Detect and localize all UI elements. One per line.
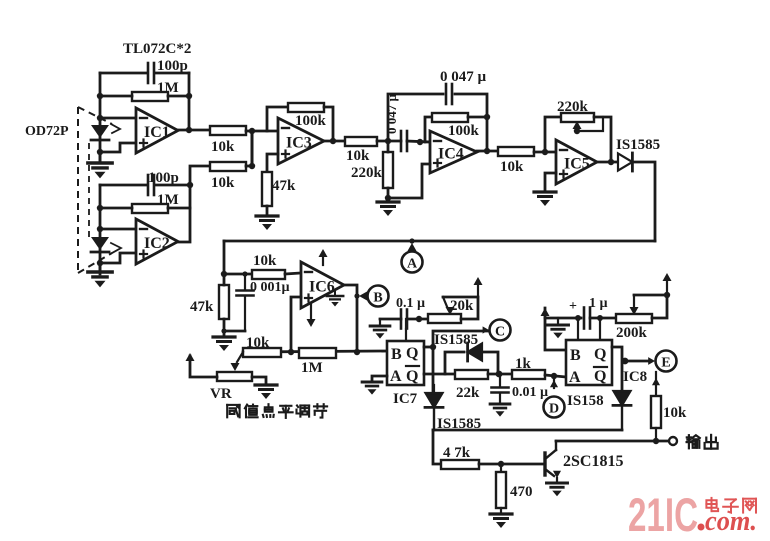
svg-text:10k: 10k <box>211 139 235 155</box>
svg-text:IC3: IC3 <box>286 135 312 152</box>
node IC1 noninv tap <box>97 149 103 155</box>
transistor 2SC1815 <box>545 441 561 483</box>
wire IC4 fb left <box>425 117 432 142</box>
wire 47k leads <box>223 274 226 331</box>
wire 10k to IC5 <box>534 151 556 154</box>
resistor 10k (IC6 in) <box>252 253 285 279</box>
svg-text:IS1585: IS1585 <box>434 332 478 348</box>
power arrow 20k <box>474 277 483 297</box>
wire 10k to hp node <box>377 140 401 143</box>
wire IC5 fb left <box>545 117 561 152</box>
resistor 1M (VR row) <box>299 348 336 376</box>
watermark dot <box>698 524 705 531</box>
ground under 47k IC3 <box>256 206 278 230</box>
label IS1585 lower <box>437 416 481 432</box>
neg arrow IC6 <box>307 303 316 327</box>
node 200k top <box>664 292 670 298</box>
wire 1u row <box>545 317 581 320</box>
wire cap to IC4 <box>407 141 430 142</box>
wire IC3 noninv <box>267 154 278 172</box>
label IS158 <box>567 393 604 409</box>
ground under D2 <box>88 263 112 287</box>
svg-text:A: A <box>569 369 581 386</box>
diode 1S1585 (IC5 out) <box>618 153 632 171</box>
ground 470 <box>490 508 512 528</box>
wire bus 10k-1M row <box>243 351 387 352</box>
wire to IC6 10k <box>224 273 252 276</box>
wire IC1 inv input <box>100 117 136 120</box>
svg-text:220k: 220k <box>557 99 589 115</box>
node IC1 1M right <box>186 93 192 99</box>
label output <box>687 435 718 449</box>
resistor 470 <box>496 464 533 508</box>
svg-text:IC4: IC4 <box>438 146 464 163</box>
ground 0.1u <box>370 319 390 339</box>
node A <box>402 252 423 273</box>
node C <box>483 320 511 341</box>
svg-text:IC7: IC7 <box>393 391 418 407</box>
wire 20k top loop <box>443 297 478 319</box>
wire 220k bottom <box>387 188 390 198</box>
wire IC2 feedback top <box>100 184 190 187</box>
svg-text:IC2: IC2 <box>144 235 170 252</box>
wire IC7 A gnd <box>372 376 387 382</box>
wire IC1 feedback top <box>100 72 189 75</box>
svg-text:IC6: IC6 <box>309 279 335 296</box>
svg-text:IS158: IS158 <box>567 393 604 409</box>
label 0 047u top <box>440 69 487 85</box>
svg-text:10k: 10k <box>346 148 370 164</box>
node 0.1u 20k <box>416 316 422 322</box>
svg-text:B: B <box>373 291 382 306</box>
resistor 220k (IC5 fb) <box>557 99 594 122</box>
svg-text:100p: 100p <box>148 170 179 186</box>
svg-text:A: A <box>390 368 402 385</box>
ground under D1 <box>88 152 112 178</box>
ground VR <box>255 385 277 399</box>
label IC7 <box>393 391 418 407</box>
svg-text:10k: 10k <box>500 159 524 175</box>
wire IC6 out <box>344 285 357 352</box>
node IC4 out <box>484 148 490 154</box>
ground 0.01u <box>490 404 510 417</box>
node IC1 1M left <box>97 93 103 99</box>
wiper 220k <box>573 117 604 134</box>
capacitor 0.047u series <box>401 131 407 151</box>
node 1u left <box>575 315 581 321</box>
svg-text:20k: 20k <box>450 298 474 314</box>
node IC2 top rail junction <box>187 182 193 188</box>
svg-text:100k: 100k <box>448 123 480 139</box>
svg-text:0.01 µ: 0.01 µ <box>512 385 548 400</box>
wire A bus to 47k <box>223 241 226 274</box>
wire 1u to 200k <box>590 317 617 320</box>
resistor 10k (VR row) <box>243 335 281 357</box>
svg-text:IC8: IC8 <box>623 369 647 385</box>
capacitor 1u <box>569 296 608 329</box>
arrow node D <box>550 376 558 388</box>
diode 1S1585 lower <box>425 385 443 430</box>
power arrow IC8 B <box>541 308 567 350</box>
wire 10k to output <box>655 428 657 441</box>
resistor 10k (E) <box>651 372 687 428</box>
op-amp IC1 <box>136 108 178 153</box>
svg-text:470: 470 <box>510 484 533 500</box>
wire cap leads <box>242 271 247 331</box>
wire 0.01u leads <box>499 374 501 404</box>
svg-text:47k: 47k <box>272 178 296 194</box>
node VR row b <box>354 349 360 355</box>
node 22k 1k <box>496 371 503 378</box>
ground emitter <box>547 483 568 496</box>
wire VR right <box>252 377 266 385</box>
svg-text:IC5: IC5 <box>564 156 590 173</box>
svg-text:1M: 1M <box>157 192 179 208</box>
svg-text:10k: 10k <box>663 405 687 421</box>
wire 200k loop <box>634 295 667 318</box>
wire IC7 Qbar out <box>424 373 455 376</box>
wire 10k2 to sum node <box>246 165 252 168</box>
resistor 47k (IC6) <box>190 285 229 319</box>
wire down to IC7 top <box>405 319 407 341</box>
svg-text:10k: 10k <box>211 175 235 191</box>
wire IC3 output <box>324 140 345 143</box>
wire IC2 inv input <box>100 228 136 231</box>
light arrow at D2 <box>111 243 121 253</box>
watermark 21IC <box>628 488 698 541</box>
dashed package outline <box>78 107 112 273</box>
resistor 22k <box>455 370 488 401</box>
svg-text:1M: 1M <box>157 80 179 96</box>
svg-text:10k: 10k <box>246 335 270 351</box>
wiper 200k <box>630 295 639 315</box>
pin B IC8 <box>570 347 581 364</box>
resistor 10k (IC4 out) <box>498 147 534 175</box>
ground IC6 small <box>327 291 344 307</box>
arrow node A <box>408 238 417 251</box>
node B <box>368 286 389 307</box>
wire IC6 plus down <box>291 297 301 352</box>
node IC3 out <box>330 138 336 144</box>
power arrow IC6 <box>319 249 328 265</box>
svg-text:1M: 1M <box>301 360 323 376</box>
label IS1585 (IC5) <box>616 137 660 153</box>
node output 10k <box>653 438 659 444</box>
capacitor 100p (IC1) <box>148 58 188 83</box>
wire 1M leads IC1 <box>100 95 189 98</box>
potentiometer VR <box>210 372 252 402</box>
op-amp IC4 <box>430 131 477 173</box>
svg-text:TL072C*2: TL072C*2 <box>123 41 191 57</box>
svg-text:E: E <box>661 356 670 371</box>
svg-text:0.1 µ: 0.1 µ <box>396 296 425 311</box>
svg-text:200k: 200k <box>616 325 648 341</box>
wire IC5 noninv <box>545 173 556 192</box>
svg-text:1k: 1k <box>515 356 532 372</box>
wiper VR <box>231 352 244 371</box>
capacitor 0.01u <box>492 385 549 400</box>
node IC5 in <box>542 149 548 155</box>
node D <box>544 397 565 418</box>
pin B IC7 <box>391 346 402 363</box>
svg-text:OD72P: OD72P <box>25 124 69 139</box>
label 2SC1815 <box>563 453 623 470</box>
node IC4 in <box>417 139 423 145</box>
resistor 200k <box>616 314 652 341</box>
caption threshold <box>227 404 327 418</box>
wire node C link <box>433 331 488 400</box>
capacitor 0.047u top <box>446 84 452 104</box>
ground IC7 A <box>362 382 382 395</box>
wire sum to IC3 inv <box>252 130 278 133</box>
wire cap to 20k <box>407 318 428 321</box>
terminal output <box>669 437 677 445</box>
wire IC4 noninv <box>388 164 430 198</box>
svg-text:0 047 µ: 0 047 µ <box>440 69 487 85</box>
svg-text:Q: Q <box>406 368 418 385</box>
svg-text:Q: Q <box>594 346 606 363</box>
node VR row a <box>288 349 294 355</box>
svg-text:0 001µ: 0 001µ <box>250 280 290 295</box>
svg-text:Q: Q <box>594 368 606 385</box>
wiper 20k <box>443 297 455 315</box>
wire IC1 right rail <box>188 73 191 130</box>
node 220k gnd <box>385 195 391 201</box>
resistor 100k (IC3 fb) <box>288 103 327 129</box>
node IC5 fb out <box>608 159 614 165</box>
wire IC5 output <box>597 161 621 164</box>
pin Q IC7 <box>406 345 418 362</box>
node IC1 out rail <box>186 127 192 133</box>
diode 1S1585 bypass <box>468 343 482 361</box>
node IC1 inv input <box>97 115 103 121</box>
op-amp IC3 <box>278 118 324 164</box>
capacitor 0.001u <box>237 280 290 296</box>
op-amp IC6 <box>301 262 344 308</box>
wire top cap right <box>455 94 487 151</box>
node IC2 1M left <box>97 205 103 211</box>
pin A IC7 <box>390 368 402 385</box>
photodiode D2 <box>91 237 109 252</box>
wire IC1 left rail <box>99 73 102 163</box>
resistor 4.7k <box>441 445 479 469</box>
wire diode bypass <box>445 352 498 374</box>
node IC2 inv input <box>97 226 103 232</box>
watermark dianziwang <box>706 498 756 513</box>
svg-text:0 047 µ: 0 047 µ <box>384 94 399 135</box>
light arrow at D1 <box>111 124 120 133</box>
svg-text:IC1: IC1 <box>144 124 170 141</box>
node 470 top <box>498 461 504 467</box>
resistor 47k (IC3) <box>262 172 296 206</box>
ground under 220k <box>377 198 399 216</box>
svg-text:C: C <box>495 325 505 340</box>
resistor 10k (IC2 out) <box>210 162 246 191</box>
label IC8 <box>623 369 647 385</box>
label OD72P <box>25 124 69 139</box>
node hp filter <box>385 138 391 144</box>
wire IC3 feedback left <box>267 107 288 131</box>
node E <box>648 351 676 372</box>
svg-text:22k: 22k <box>456 385 480 401</box>
svg-text:21IC: 21IC <box>628 488 698 541</box>
wire IC2 output up <box>178 166 210 242</box>
svg-text:100p: 100p <box>157 58 188 74</box>
capacitor 100p (IC2) <box>148 170 179 195</box>
wire diode to A-bus <box>633 162 655 241</box>
svg-text:220k: 220k <box>351 165 383 181</box>
wire 220k top <box>387 141 390 152</box>
pin Q IC8 <box>594 346 606 363</box>
ground under 47k IC6 <box>213 331 235 351</box>
wire IC7 Q out <box>424 346 433 349</box>
resistor 100k (IC4 fb) <box>432 113 480 139</box>
svg-text:+: + <box>569 299 577 314</box>
capacitor 0.1u <box>396 296 425 329</box>
wire IC5 fb right <box>594 117 611 162</box>
wire VR left <box>190 356 217 377</box>
svg-text:100k: 100k <box>295 113 327 129</box>
label TL072C*2 <box>123 41 191 57</box>
wire A bus <box>224 240 655 243</box>
resistor 10k (IC1 out) <box>210 126 246 155</box>
wire hp node up <box>388 94 443 141</box>
svg-text:4 7k: 4 7k <box>443 445 471 461</box>
resistor 1M (IC1) <box>132 80 179 101</box>
diode below IC8 <box>613 391 631 430</box>
wire summing junction <box>249 128 255 169</box>
wire IC2 left rail <box>99 185 102 274</box>
label IS1585 (C) <box>434 332 478 348</box>
ground IC5 noninv <box>534 192 556 206</box>
svg-text:10k: 10k <box>253 253 277 269</box>
wire 22k to 1k <box>488 373 512 376</box>
node 47k bottom <box>221 328 226 333</box>
svg-text:B: B <box>570 347 581 364</box>
pin Qbar IC8 <box>594 367 607 385</box>
node IC8 E tap <box>622 358 629 365</box>
pin A IC8 <box>569 369 581 386</box>
wire 47k bottom join <box>224 330 245 333</box>
wire IC4 output <box>477 150 498 153</box>
arrow node B <box>354 292 367 301</box>
wire IC3 feedback right <box>324 107 333 141</box>
label 0 047u vertical <box>384 94 399 135</box>
pin Qbar IC7 <box>406 366 419 385</box>
wire IC2 noninv input <box>100 253 136 263</box>
wire to node E <box>625 360 648 363</box>
power arrow 200k <box>663 273 672 295</box>
watermark com <box>705 506 757 537</box>
ic IC7 box <box>387 341 424 385</box>
ic IC8 box <box>566 340 612 385</box>
svg-text:Q: Q <box>406 345 418 362</box>
wire cap drops to IC8 <box>578 315 603 340</box>
wire base <box>479 463 543 466</box>
wire left drop to 4.7k <box>433 430 441 464</box>
node IC7 Q <box>430 344 436 350</box>
node IC4 fb right <box>484 114 490 120</box>
wire IC4 fb right <box>468 116 487 119</box>
ground 1u <box>548 318 569 338</box>
wire gnd to cap <box>380 318 401 321</box>
node IC2 noninv tap <box>97 260 103 266</box>
svg-text:D: D <box>549 402 559 417</box>
resistor 1k <box>512 356 545 379</box>
wire 10k to sum node <box>246 130 252 133</box>
svg-text:B: B <box>391 346 402 363</box>
wire 1k to IC8 A <box>545 375 566 377</box>
resistor 1M (IC2) <box>132 192 179 213</box>
op-amp IC5 <box>556 140 597 184</box>
power arrow VR <box>186 353 195 361</box>
wire IC1 noninv input <box>100 143 136 152</box>
svg-text:A: A <box>407 257 418 272</box>
node 47k top <box>221 271 227 277</box>
svg-text:2SC1815: 2SC1815 <box>563 453 623 470</box>
wire IC8 Q out <box>612 347 622 393</box>
photodiode D1 <box>91 125 109 140</box>
svg-text:1 µ: 1 µ <box>589 296 608 311</box>
resistor 10k (IC3 out) <box>345 137 377 164</box>
wire collector output <box>556 440 673 443</box>
svg-text:VR: VR <box>210 386 232 402</box>
resistor 220k (IC4) <box>351 152 393 188</box>
wire 1M leads IC2 <box>100 207 190 210</box>
svg-text:IS1585: IS1585 <box>616 137 660 153</box>
resistor 20k <box>428 298 474 323</box>
wire feedback bottom <box>433 429 622 432</box>
node D tap <box>551 373 557 379</box>
wire IC1 output <box>178 129 210 132</box>
wire 10k to IC6 <box>285 273 301 274</box>
svg-text:47k: 47k <box>190 299 214 315</box>
op-amp IC2 <box>136 219 178 264</box>
